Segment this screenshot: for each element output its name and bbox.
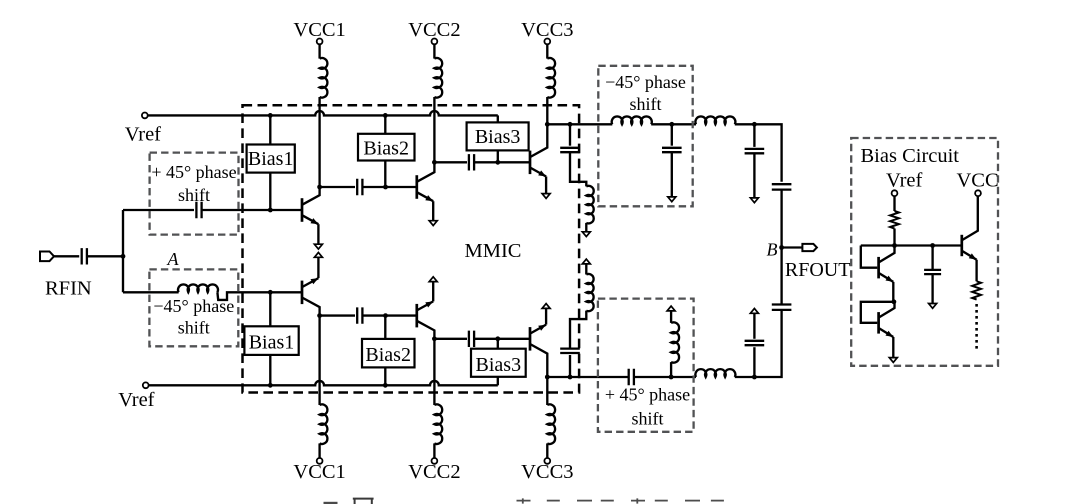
wire VCC1 top feed upper <box>318 44 320 58</box>
node upper Bias1 bottom junction <box>268 208 273 213</box>
terminal Vref (bias circuit) <box>892 190 898 196</box>
svg-text:VCC3: VCC3 <box>521 461 573 483</box>
svg-text:Vref: Vref <box>125 124 161 146</box>
wire dotted continuation (bias output) <box>975 304 978 352</box>
wire inductor end jog <box>217 292 270 300</box>
node interstage1 lower Bias2 tap <box>383 313 388 318</box>
bias network Bias3 (lower) <box>471 349 526 377</box>
wire -45 shunt cap top b <box>671 152 673 197</box>
capacitor combiner top <box>772 184 792 189</box>
wire output shunt cap top b <box>753 153 755 198</box>
resistor bias follower <box>972 281 981 299</box>
wire bias cap branch a <box>931 246 933 270</box>
node output bottom edge tap <box>568 375 573 380</box>
wire interstage2 upper b <box>474 161 530 163</box>
terminal VCC2 top <box>432 39 438 45</box>
wire Vref rail to Bias3 top <box>497 115 499 122</box>
bias network Bias1 (lower) <box>244 326 298 355</box>
wire phase cap to Bias1 node <box>202 209 271 211</box>
transistor Q1 (upper stage 1) <box>301 198 304 222</box>
wire Bias2 riser bottom <box>384 161 386 188</box>
wire VCC3 bottom feed lower <box>546 443 548 458</box>
transistor Q5 (lower stage 2) <box>415 304 418 328</box>
bias network Bias2 (upper) <box>358 134 415 161</box>
wire B to RFOUT connector <box>782 246 803 248</box>
node Q1 collector junction <box>317 185 322 190</box>
via ground Q2 (down arrow) <box>429 221 437 226</box>
svg-text:shift: shift <box>178 317 210 337</box>
svg-text:−45° phase: −45° phase <box>153 296 234 316</box>
wire VCC2 top feed upper <box>433 44 435 58</box>
wire Q4 emitter to via <box>317 257 319 278</box>
node Q5 collector junction <box>432 336 437 341</box>
inductor VCC3 top choke <box>547 58 555 98</box>
via ground bias stack (down arrow) <box>889 358 897 363</box>
wire output rail bottom a <box>547 376 598 378</box>
terminal VCC3 top <box>544 39 550 45</box>
node Q4 collector junction <box>317 313 322 318</box>
wire VCC3 bottom feed upper <box>546 377 548 405</box>
inductor VCC2 top choke <box>434 58 442 98</box>
RFOUT connector <box>802 244 817 251</box>
svg-text:−45° phase: −45° phase <box>605 72 686 92</box>
bias network Bias2 (lower) <box>362 339 415 368</box>
wire VCC1 bottom feed lower <box>318 443 320 458</box>
wire interstage2 lower b <box>474 338 530 340</box>
node interstage2 lower Bias3 tap <box>495 336 500 341</box>
inductor -45 phase shift L <box>178 284 218 292</box>
inductor VCC1 bottom choke <box>320 404 328 444</box>
wire edge branch top a <box>569 124 571 145</box>
wire Vref bottom rail to Bias3b bottom <box>497 377 499 386</box>
svg-text:shift: shift <box>178 185 210 205</box>
node Vref bottom rail Bias1 tap <box>268 383 273 388</box>
capacitor output matching bottom <box>745 341 765 345</box>
wire VCC2 bottom feed upper <box>433 339 435 405</box>
wire Vref top rail <box>148 111 498 115</box>
inductor -45 phase shift L (output) <box>612 116 652 124</box>
inductor MMIC edge top <box>586 186 593 224</box>
svg-text:VCC: VCC <box>957 170 999 192</box>
box Bias Circuit <box>851 138 998 366</box>
via ground output top (down arrow) <box>750 198 758 203</box>
svg-text:Bias2: Bias2 <box>363 138 409 160</box>
svg-text:A: A <box>167 249 180 269</box>
wire interstage1 upper b <box>362 186 417 188</box>
wire Bias1b riser bottom <box>269 355 271 385</box>
wire lower Bias1 node to Q1b base <box>270 291 302 293</box>
node output top -45 tap <box>669 122 674 127</box>
wire Bias1 riser bottom <box>269 173 271 210</box>
svg-text:Vref: Vref <box>886 170 922 192</box>
wire RFIN to input cap <box>54 255 79 257</box>
capacitor MMIC edge top <box>560 148 580 152</box>
wire interstage1 lower <box>320 314 355 316</box>
transistor Q6 (lower stage 3) <box>529 327 532 351</box>
wire upper branch to phase cap <box>123 209 194 211</box>
via ground Q4 (up arrow) <box>314 253 322 258</box>
wire Q8 emitter to ground <box>892 337 894 358</box>
wire interstage2 upper <box>434 161 467 163</box>
wire diode1 feedback loop <box>861 246 878 268</box>
wire Q5 emitter to via <box>432 282 434 302</box>
wire diode2 feedback loop <box>861 302 894 323</box>
wire lower branch entry <box>123 291 179 293</box>
wire VCC1 top feed lower <box>318 97 320 187</box>
terminal VCC1 bottom <box>317 458 323 464</box>
inductor output matching top <box>695 116 735 124</box>
wire edge branch bottom b <box>570 311 586 349</box>
wire interstage1 lower b <box>362 314 417 316</box>
wire Q1 emitter to via <box>317 224 319 244</box>
svg-text:+ 45° phase: + 45° phase <box>151 162 236 182</box>
transistor Q9 (bias follower) <box>960 235 963 256</box>
node Vref rail Bias1 tap <box>268 113 273 118</box>
capacitor interstage1 lower <box>357 307 362 323</box>
svg-text:MMIC: MMIC <box>465 240 522 262</box>
transistor Q4 (lower stage 1) <box>301 281 304 305</box>
capacitor output matching top <box>745 149 765 153</box>
via ground Q3 (down arrow) <box>542 194 550 199</box>
wire input cap to splitter node <box>87 255 123 257</box>
capacitor MMIC edge bottom <box>560 349 580 353</box>
via ground output bottom (up arrow) <box>750 309 758 314</box>
svg-text:Bias3: Bias3 <box>476 354 522 376</box>
svg-text:Vref: Vref <box>118 389 154 411</box>
wire Vref to resistor <box>893 196 895 211</box>
wire bias cap branch b <box>931 274 933 304</box>
wire Bias1 node to Q1 base <box>270 209 302 211</box>
via ground bias cap (down arrow) <box>929 304 937 309</box>
transistor Q8 (diode-connected lower) <box>877 312 880 334</box>
svg-text:Bias1: Bias1 <box>248 148 294 170</box>
svg-text:VCC2: VCC2 <box>408 19 460 41</box>
transistor Q7 (diode-connected upper) <box>877 257 880 279</box>
wire Bias2b riser top <box>384 316 386 339</box>
wire combiner top to B <box>780 190 782 248</box>
node interstage1 upper Bias2 tap <box>383 185 388 190</box>
transistor Q3 (upper stage 3) <box>529 151 532 175</box>
wire Vref bottom rail <box>149 381 498 385</box>
wire Bias3b riser top <box>497 339 499 349</box>
capacitor interstage2 lower <box>469 331 474 347</box>
wire VCC2 top feed lower <box>433 97 435 162</box>
node Vref rail Bias2 tap <box>383 113 388 118</box>
node interstage2 upper Bias3 tap <box>495 160 500 165</box>
terminal VCC3 bottom <box>544 458 550 464</box>
transistor Q2 (upper stage 2) <box>415 175 418 199</box>
svg-text:shift: shift <box>631 409 663 429</box>
svg-text:+ 45° phase: + 45° phase <box>605 385 690 405</box>
wire output rail bottom d <box>735 310 782 377</box>
wire Bias1 riser top <box>269 115 271 144</box>
wire resistor to mirror node <box>893 229 895 246</box>
svg-text:shift: shift <box>629 94 661 114</box>
capacitor interstage1 upper <box>357 179 362 195</box>
terminal Vref bottom <box>143 382 149 388</box>
svg-text:Bias Circuit: Bias Circuit <box>861 145 960 167</box>
wire edge branch top b <box>570 152 586 186</box>
wire output rail bottom b <box>598 376 629 378</box>
capacitor input DC block <box>82 248 87 264</box>
wire +45 shunt L bottom b <box>670 311 672 323</box>
wire edge branch bottom a <box>569 355 571 377</box>
wire Q6 emitter to via <box>545 308 547 324</box>
inductor MMIC edge bottom <box>586 274 593 311</box>
terminal VCC1 top <box>317 39 323 45</box>
MMIC chip boundary (black dashed box) <box>243 105 580 392</box>
node Q2 collector junction <box>432 160 437 165</box>
wire Bias2 riser top <box>384 115 386 133</box>
wire output shunt cap top a <box>753 124 755 147</box>
wire Q3 emitter to via <box>545 177 547 194</box>
capacitor +45 phase shift C (output) <box>629 369 634 385</box>
svg-text:RFOUT: RFOUT <box>785 259 851 281</box>
svg-text:VCC3: VCC3 <box>521 19 573 41</box>
inductor VCC3 bottom choke <box>547 404 555 444</box>
wire splitter vertical <box>122 210 124 292</box>
svg-text:B: B <box>767 240 778 260</box>
svg-text:VCC1: VCC1 <box>293 461 345 483</box>
svg-text:Bias1: Bias1 <box>249 332 295 354</box>
wire -45 shunt cap top a <box>671 124 673 145</box>
via ground edge top (down arrow) <box>582 232 590 237</box>
node splitter junction <box>121 254 126 259</box>
wire output shunt cap bottom b <box>753 313 755 339</box>
via ground Q5 (up arrow) <box>429 277 437 282</box>
wire VCC2 bottom feed lower <box>433 443 435 458</box>
terminal Vref top <box>142 113 148 119</box>
wire Q2 emitter to via <box>432 201 434 221</box>
inductor VCC1 top choke <box>320 58 328 98</box>
via ground -45 box (down arrow) <box>668 197 676 202</box>
wire Q9 emitter to resistor <box>975 260 977 282</box>
wire output rail top c <box>735 124 782 182</box>
wire output rail bottom c <box>634 376 696 378</box>
node Q3 collector junction <box>545 122 550 127</box>
via ground Q6 (up arrow) <box>542 304 550 309</box>
via ground +45 box (up arrow) <box>667 306 675 311</box>
inductor output matching bottom <box>695 369 735 377</box>
inductor +45 phase shift L (output) <box>671 322 679 362</box>
node Q6 collector junction <box>545 375 550 380</box>
box +45 phase shift (input upper) <box>150 153 239 235</box>
svg-text:RFIN: RFIN <box>45 277 92 299</box>
node output bottom +45 tap <box>669 375 674 380</box>
resistor bias reference <box>890 211 899 229</box>
node output bottom cap tap <box>752 375 757 380</box>
wire VCC3 top feed upper <box>546 44 548 58</box>
terminal VCC (bias circuit) <box>975 190 981 196</box>
wire output rail top b <box>651 123 696 125</box>
capacitor combiner bottom <box>772 305 792 310</box>
via ground Q1 (down arrow) <box>314 244 322 249</box>
capacitor bias bypass <box>924 270 941 274</box>
wire Bias1b riser top <box>269 292 271 326</box>
node bias mirror mid <box>892 299 897 304</box>
terminal VCC2 bottom <box>432 458 438 464</box>
wire edge branch bottom c <box>585 264 587 275</box>
inductor VCC2 bottom choke <box>434 404 442 444</box>
wire bias rail <box>861 244 962 246</box>
capacitor interstage2 upper <box>469 154 474 170</box>
svg-text:Bias2: Bias2 <box>365 344 411 366</box>
wire VCC3 top feed lower <box>546 97 548 124</box>
node bias cap tap <box>930 243 935 248</box>
svg-text:Bias3: Bias3 <box>475 126 521 148</box>
caption text fragments (cropped figure caption) <box>324 502 338 504</box>
wire Bias2b riser bottom <box>384 367 386 385</box>
wire +45 shunt L bottom a <box>670 362 672 377</box>
svg-text:VCC1: VCC1 <box>293 19 345 41</box>
node output top edge tap <box>568 122 573 127</box>
node B combiner junction <box>779 245 784 250</box>
node lower Bias1 top junction <box>268 290 273 295</box>
wire output shunt cap bottom a <box>753 347 755 377</box>
box -45 phase shift (output) <box>598 66 692 207</box>
wire edge branch top c <box>585 223 587 232</box>
via ground edge bottom (up arrow) <box>582 259 590 264</box>
wire output rail top a <box>547 123 612 125</box>
node output top cap tap <box>752 122 757 127</box>
wire Bias3 riser bottom <box>497 150 499 162</box>
bias network Bias1 (upper) <box>247 145 295 173</box>
capacitor -45 phase shift C <box>662 148 682 152</box>
wire interstage1 upper <box>320 186 355 188</box>
box +45 phase shift (output) <box>598 299 694 432</box>
wire Q7 emitter to node2 <box>892 282 894 302</box>
node Vref bottom rail Bias2 tap <box>383 383 388 388</box>
bias network Bias3 (upper) <box>467 122 529 150</box>
wire combiner bottom to B <box>780 248 782 305</box>
node bias mirror top <box>892 243 897 248</box>
wire interstage2 lower <box>434 338 467 340</box>
svg-text:VCC2: VCC2 <box>408 461 460 483</box>
capacitor +45 phase shift C <box>196 202 201 218</box>
box -45 phase shift (input lower) <box>149 269 238 346</box>
RFIN connector <box>40 252 54 262</box>
wire VCC1 bottom feed upper <box>318 316 320 405</box>
